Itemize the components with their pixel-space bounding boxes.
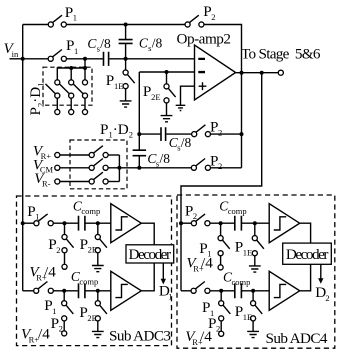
wire ADC4 row1 to cap	[210, 222, 235, 224]
wire main input rail left	[23, 58, 49, 60]
wire Vin input stub	[10, 58, 23, 60]
label P2 ADC3 row1	[48, 236, 60, 255]
label VR+	[33, 143, 51, 161]
node ADC4 row2 P1E junction	[251, 289, 255, 293]
wire SubADC3 row1 to switch	[23, 222, 34, 224]
switch P2E ADC3 row2	[95, 291, 107, 331]
wire VR+ row	[60, 154, 90, 156]
switch VR- row	[89, 172, 108, 184]
wire ADC3 row2 corner	[23, 290, 34, 292]
wire ADC3 row1 cap to comparator	[86, 222, 111, 224]
switch P1E	[123, 59, 135, 101]
wire VR- row	[60, 181, 90, 183]
ground P1E ADC4 row2	[247, 331, 259, 337]
node ADC3 row1 P2 junction	[63, 221, 67, 225]
label P1 ADC4 row2	[202, 299, 214, 318]
wire main rail to opamp	[109, 58, 194, 60]
wire VCM row	[60, 167, 90, 169]
switch P1 ADC3 row1	[34, 214, 53, 226]
capacitor Cs/8 shunt top	[119, 25, 133, 59]
capacitor Ccomp ADC3 row1	[79, 216, 85, 231]
svg-text:/8: /8	[181, 135, 192, 150]
wire ADC4 row2 to cap	[210, 290, 235, 292]
svg-text:Decoder: Decoder	[286, 246, 329, 263]
svg-text:Sub ADC4: Sub ADC4	[266, 330, 328, 347]
box P1.D2 dashed	[70, 140, 127, 189]
wire comparator2 output to decoder	[141, 263, 154, 291]
svg-text:1: 1	[74, 46, 78, 56]
wire feedback rail right and down	[204, 25, 242, 168]
wire branch vertical to caps	[138, 72, 140, 150]
switch P2 ADC4 row1	[191, 214, 210, 226]
svg-text:/4: /4	[200, 328, 212, 345]
wire ADC3 row2 to cap	[53, 290, 78, 292]
node Vin input label	[4, 40, 19, 59]
ground P2E ADC3 row2	[92, 331, 104, 337]
wire P2.D1 bus	[57, 66, 87, 80]
label P1 ADC3 row2	[44, 297, 56, 316]
decoder ADC3	[126, 245, 174, 263]
label P1E ADC4 row2	[235, 303, 252, 322]
label P2.D1 rotated	[27, 83, 46, 116]
svg-text:comp: comp	[81, 206, 100, 216]
svg-text:/8: /8	[100, 36, 111, 51]
label P2E	[143, 83, 161, 102]
svg-text:/4: /4	[38, 326, 50, 343]
svg-text:1E: 1E	[243, 247, 252, 257]
node Vin junction	[21, 57, 25, 61]
label Cs/8 shunt	[139, 36, 163, 54]
svg-text:2: 2	[211, 12, 215, 22]
ground opamp plus	[176, 105, 186, 110]
node ADC3 row2 P2 junction	[62, 289, 66, 293]
svg-text:1E: 1E	[243, 312, 252, 322]
wire comparator1 output to decoder	[141, 223, 154, 245]
node SubADC3 row1 junction on Vin rail	[21, 221, 25, 225]
wire P2 reference to vertical A	[210, 167, 241, 169]
node VR+ terminal	[55, 152, 60, 157]
wire opamp output	[236, 72, 279, 74]
svg-text:2: 2	[216, 324, 220, 334]
switch bank P2.D1 column 1	[46, 80, 60, 115]
label D2	[315, 284, 329, 303]
svg-text:1: 1	[168, 291, 172, 301]
svg-text:R-: R-	[42, 178, 51, 188]
wire VR- row to bus	[108, 181, 120, 183]
switch P2 reference rail	[191, 159, 210, 171]
svg-text:Decoder: Decoder	[129, 246, 172, 263]
svg-text:in: in	[12, 49, 19, 59]
node P2E junction	[165, 70, 169, 74]
wire VR+ row to bus	[108, 154, 120, 156]
comparator ADC4 lower	[269, 271, 300, 310]
switch P2 branch	[192, 125, 211, 137]
wire decoder D2 arrow	[318, 264, 323, 284]
node ADC3 row2 P2E junction	[96, 289, 100, 293]
label Cs/8 main	[87, 36, 111, 54]
svg-text:/8: /8	[160, 151, 171, 166]
switch VR+ row	[89, 146, 108, 158]
svg-text:Sub ADC3: Sub ADC3	[109, 327, 171, 344]
label P2 ADC4 row2	[208, 315, 220, 334]
node VR- terminal	[55, 179, 60, 184]
label VR+/4 ADC4 mid	[186, 255, 213, 274]
svg-text:P: P	[106, 72, 114, 89]
capacitor Ccomp ADC4 row1	[235, 216, 242, 231]
node ADC3 row1 P2E junction	[96, 221, 100, 225]
svg-text:Op-amp2: Op-amp2	[177, 30, 232, 47]
box Sub ADC3 dashed	[17, 196, 172, 346]
node D1 bus junction	[83, 57, 87, 61]
label P1 ADC3 row1	[27, 203, 39, 222]
label Ccomp ADC4 row1	[219, 198, 246, 216]
switch P1E ADC4 row2	[251, 291, 263, 331]
node ADC4 row2 P2 junction	[219, 289, 223, 293]
node vertical A junction	[240, 132, 244, 136]
svg-text:1: 1	[73, 13, 77, 23]
svg-text:2E: 2E	[87, 313, 96, 323]
svg-text:P2·D1: P2·D1	[27, 83, 46, 116]
capacitor Ccomp ADC4 row2	[235, 283, 242, 298]
box Sub ADC4 dashed	[177, 195, 335, 348]
label P1 main	[66, 37, 78, 56]
label VCM	[33, 156, 54, 174]
svg-text:2: 2	[56, 245, 60, 255]
svg-text:2E: 2E	[88, 245, 97, 255]
wire ADC4 row2 cap to comparator	[242, 290, 269, 292]
svg-text:comp: comp	[228, 206, 247, 216]
svg-text:comp: comp	[79, 277, 98, 287]
svg-text:/4: /4	[201, 255, 213, 272]
switch VCM row	[89, 159, 108, 171]
wire opamp plus input to ground	[181, 86, 195, 105]
svg-text:1: 1	[35, 212, 39, 222]
comparator ADC3 upper	[111, 204, 142, 243]
wire ADC4 row2 corner	[181, 290, 191, 292]
wire Vin vertical rail	[22, 25, 24, 291]
switch P1 ADC3 row2	[34, 282, 54, 294]
wire branch horizontal to cap	[139, 133, 160, 135]
comparator ADC4 upper	[269, 204, 300, 243]
label Ccomp ADC3 row1	[73, 198, 100, 216]
wire reference bus vertical	[118, 155, 120, 182]
svg-text:2E: 2E	[151, 92, 160, 102]
node reference bus junction	[117, 166, 121, 170]
wire ADC3 row2 cap to comparator	[86, 290, 111, 292]
decoder ADC4	[283, 243, 332, 264]
node output junction B	[260, 71, 264, 75]
ground P2E	[161, 116, 173, 122]
capacitor Cs/8 series main	[104, 52, 109, 66]
svg-text:1E: 1E	[114, 81, 123, 91]
switch P1 main	[48, 50, 66, 62]
label P2E ADC3 row2	[79, 304, 96, 323]
label Cs/8 branch	[169, 135, 192, 153]
switch P2 feedback	[185, 15, 204, 27]
switch P2E ADC3 row1	[95, 223, 107, 265]
node ADC4 row1 P1 junction	[219, 221, 223, 225]
node ADC4 row1 P1E junction	[253, 221, 257, 225]
capacitor Cs/8 vertical branch	[133, 150, 147, 168]
svg-text:2: 2	[218, 161, 222, 171]
label P2 ADC3 row2	[51, 315, 63, 334]
wire opamp input rail 2	[139, 71, 194, 73]
comparator ADC3 lower	[111, 271, 142, 310]
switch P2E	[164, 72, 176, 115]
switch P1 ADC4 row2	[191, 282, 210, 294]
node SubADC4 input junction	[179, 221, 183, 225]
svg-text:2: 2	[193, 211, 197, 221]
node branch junction	[137, 132, 141, 136]
wire main rail to cap	[66, 58, 103, 60]
label Ccomp ADC3 row2	[71, 269, 98, 287]
wire SubADC4 row1 to switch	[181, 222, 192, 224]
switch bank P2.D1 column 2	[59, 80, 73, 115]
wire residue feed to SubADC4	[181, 73, 262, 291]
label P1 ADC4 row1	[199, 240, 211, 259]
label P2 feedback	[203, 3, 215, 22]
svg-text:/4: /4	[44, 264, 56, 281]
label VR+/4 ADC3 mid	[29, 264, 56, 283]
label P2 ADC4 row1	[185, 203, 197, 222]
label VR-	[34, 170, 50, 189]
node output terminal	[278, 70, 283, 75]
svg-text:P1·D2: P1·D2	[100, 121, 133, 140]
svg-text:To Stage 5&6: To Stage 5&6	[241, 46, 321, 63]
svg-text:2: 2	[59, 324, 63, 334]
wire P2 branch to vertical A	[210, 133, 241, 135]
node output junction A	[240, 71, 244, 75]
wire ADC4 row1 cap to comparator	[242, 222, 269, 224]
wire cap to P2 switch	[166, 133, 192, 135]
node reference rail junction	[137, 166, 141, 170]
label P2E ADC3 row1	[80, 236, 97, 255]
wire reference rail	[108, 167, 192, 169]
switch P2 ADC3 row2 vertical	[62, 291, 74, 336]
capacitor Ccomp ADC3 row2	[79, 283, 85, 298]
wire ADC3 row1 to cap	[53, 222, 78, 224]
wire comparator2 ADC4 to decoder	[300, 264, 311, 291]
label P1 top	[65, 4, 77, 23]
switch P1 ADC4 row1 vertical	[218, 223, 230, 270]
svg-text:/8: /8	[152, 36, 163, 51]
svg-text:R+: R+	[41, 151, 52, 161]
label P2 reference rail	[210, 152, 222, 171]
wire comparator1 ADC4 to decoder	[300, 223, 311, 243]
box P2.D1 dashed	[43, 67, 92, 105]
node cap junction main rail	[124, 57, 128, 61]
label P1E ADC4 row1	[235, 239, 252, 258]
switch P1 top	[48, 15, 66, 27]
node VCM terminal	[55, 165, 60, 170]
svg-text:2: 2	[325, 293, 329, 303]
switch P1E ADC4 row1	[252, 223, 264, 266]
switch P2 ADC3 row1 vertical	[62, 223, 74, 269]
label VR+/4 ADC3 bottom	[21, 326, 50, 345]
label Ccomp ADC4 row2	[223, 270, 250, 288]
ground P1E	[120, 101, 132, 107]
wire top rail middle	[66, 24, 185, 26]
wire D1 bus stub	[84, 59, 86, 68]
switch P2 ADC4 row2 vertical	[219, 291, 231, 337]
svg-text:2: 2	[218, 127, 222, 137]
label Cs/8 vertical branch	[147, 151, 170, 169]
label P2 branch	[210, 119, 222, 138]
label VR+/4 ADC4 bottom	[185, 328, 212, 347]
label D1	[159, 283, 173, 302]
ground P2E ADC3 row1	[92, 266, 104, 272]
ground P1E ADC4 row1	[249, 266, 261, 272]
label P1E	[106, 72, 124, 91]
op-amp U1 Op-amp2	[195, 45, 236, 100]
switch bank P2.D1 column 3	[73, 80, 87, 115]
wire top feedback rail left	[23, 24, 49, 26]
svg-text:comp: comp	[232, 277, 251, 287]
svg-text:P: P	[143, 83, 151, 100]
node top rail junction	[124, 23, 128, 27]
capacitor Cs/8 series branch	[161, 127, 166, 141]
wire decoder D1 arrow	[161, 263, 166, 284]
